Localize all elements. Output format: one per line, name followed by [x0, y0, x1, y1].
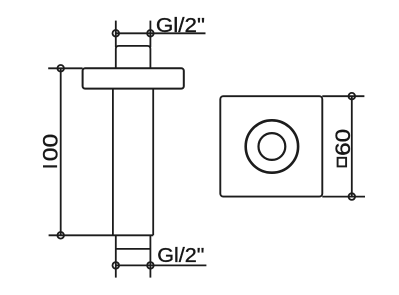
svg-text:Gl/2": Gl/2"	[156, 15, 205, 37]
svg-text:60: 60	[331, 129, 355, 156]
svg-text:Gl/2": Gl/2"	[157, 245, 204, 267]
svg-text:00: 00	[38, 134, 62, 162]
